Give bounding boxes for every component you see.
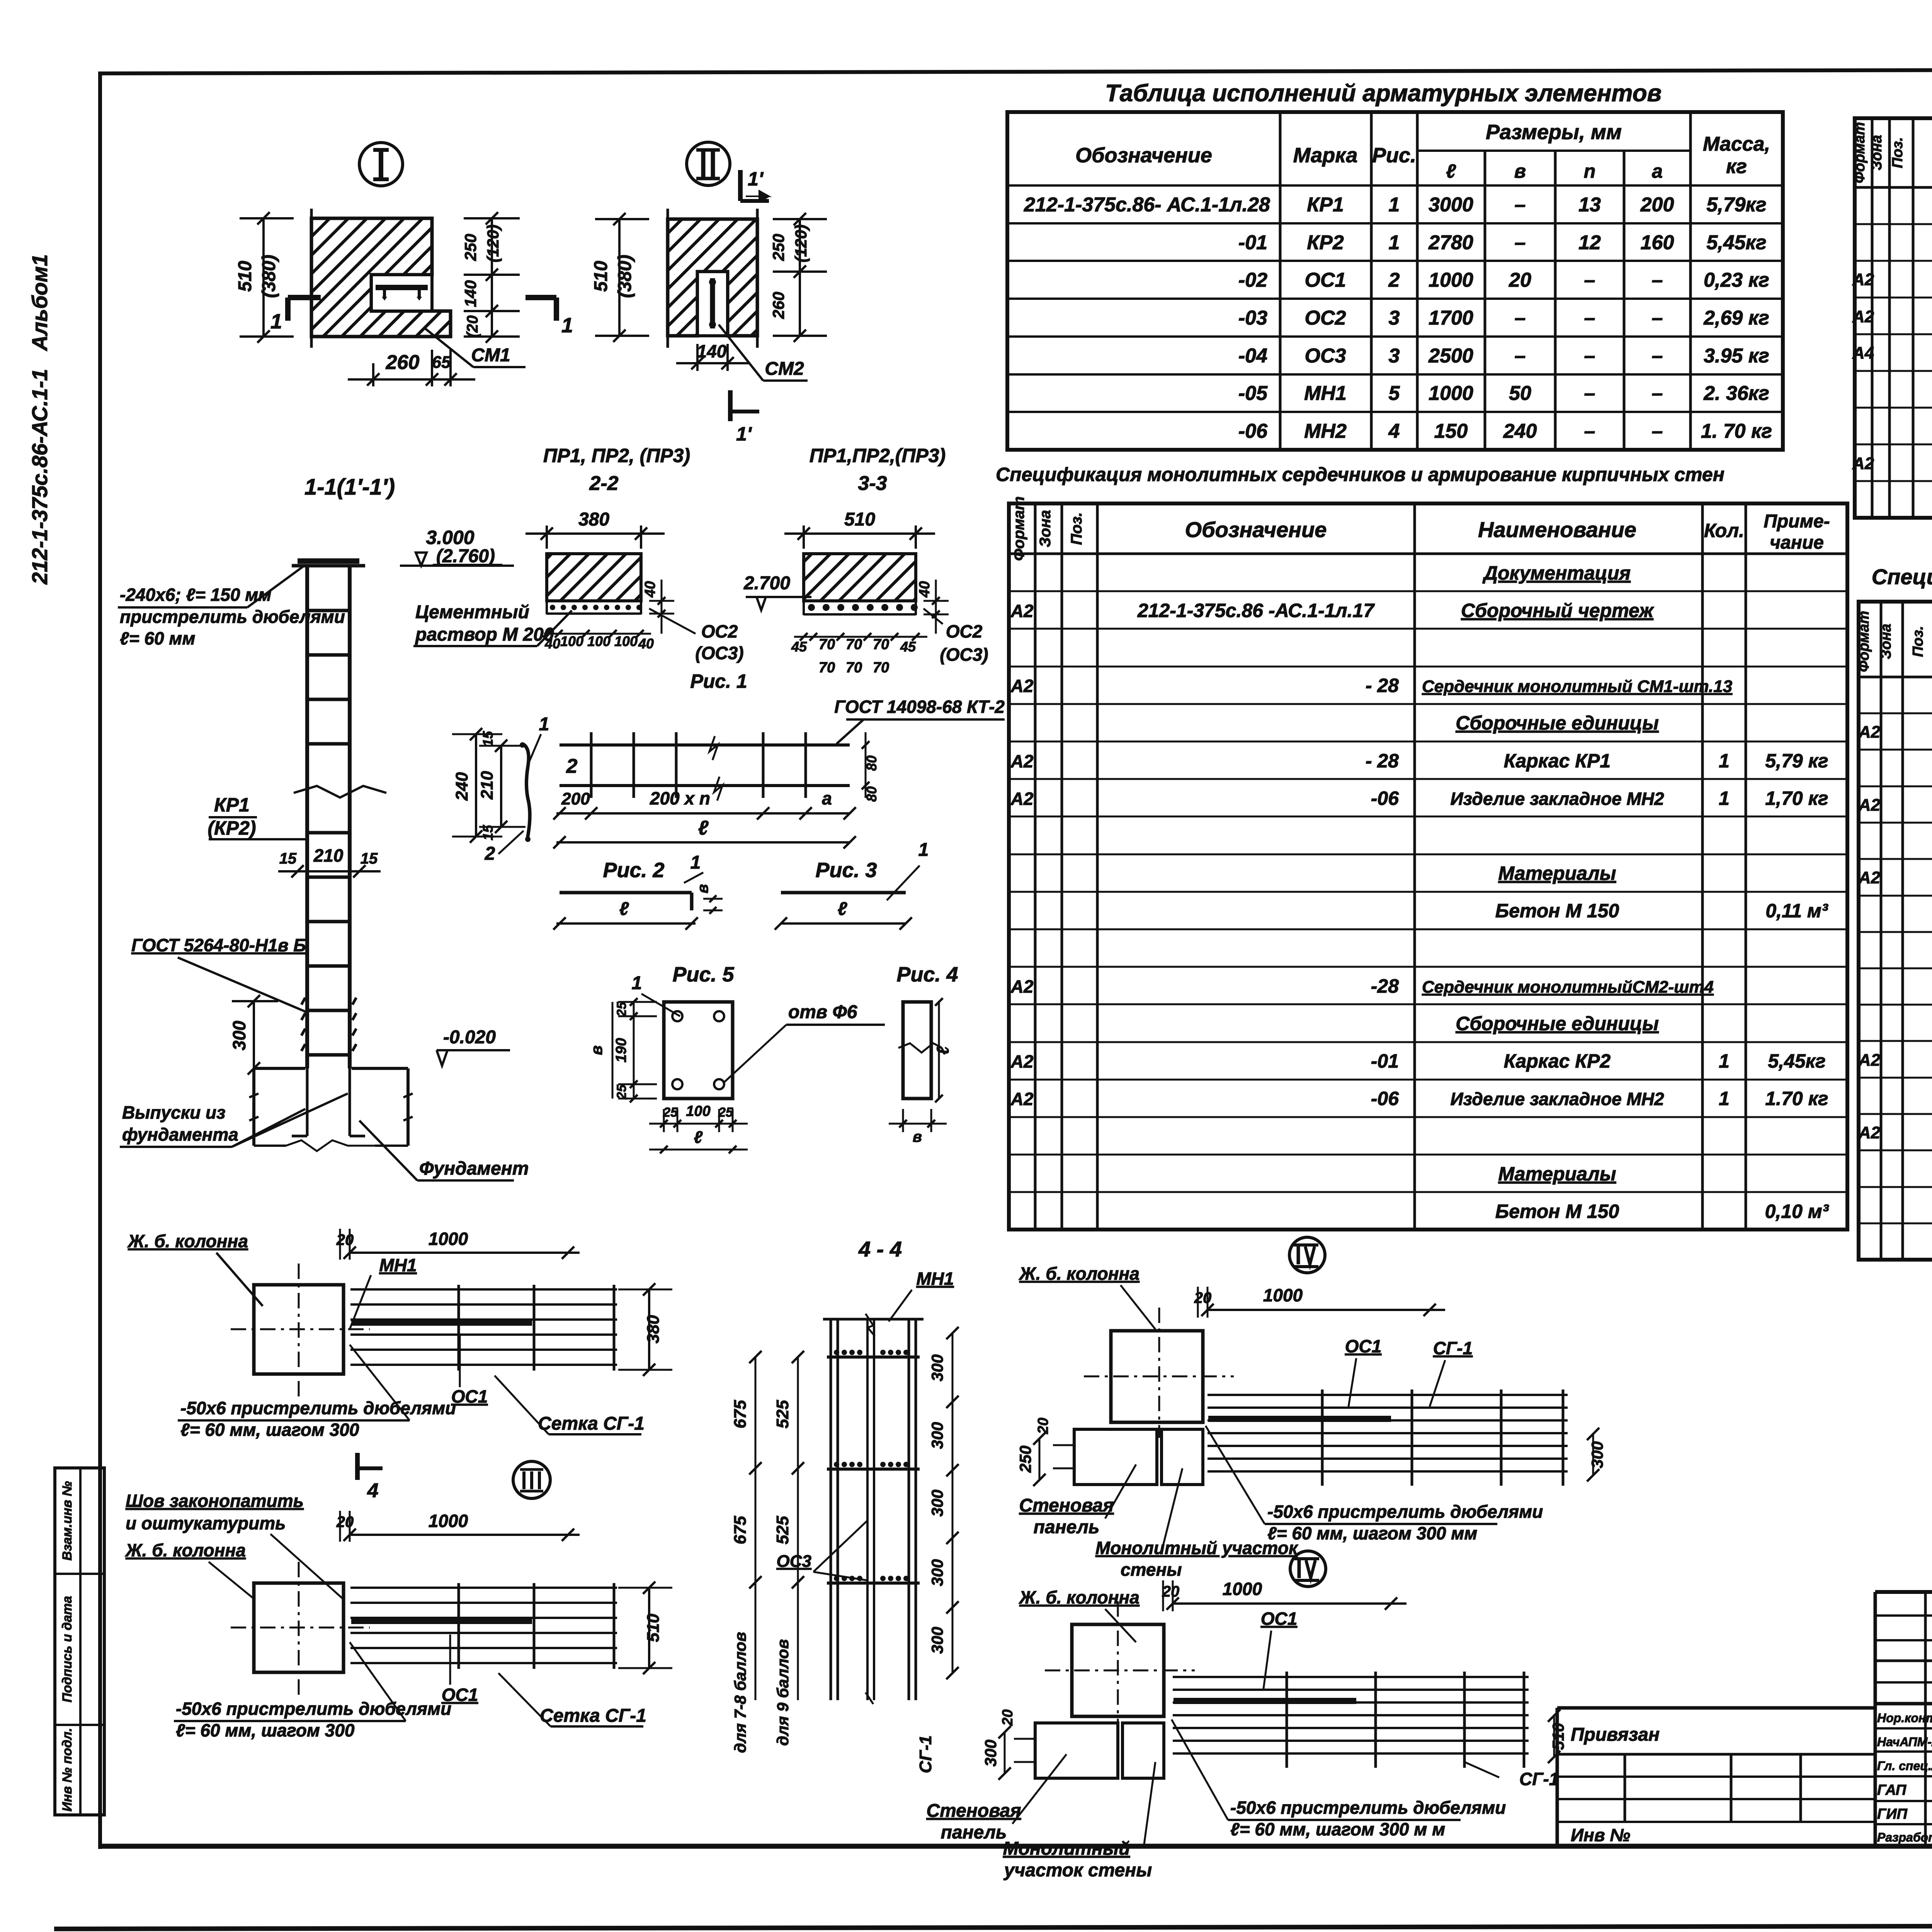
detail I right dims 250(120) 140 (20) (491, 218, 493, 337)
svg-text:А4: А4 (1852, 344, 1874, 362)
svg-text:фундамента: фундамента (122, 1124, 238, 1145)
svg-text:80: 80 (864, 786, 879, 802)
svg-text:1-1(1′-1′): 1-1(1′-1′) (304, 474, 395, 500)
svg-text:250: 250 (769, 234, 787, 261)
svg-text:65: 65 (432, 353, 451, 372)
svg-text:300: 300 (229, 1020, 249, 1050)
svg-text:НачАПМ-2: НачАПМ-2 (1877, 1735, 1932, 1749)
svg-text:Разработ.: Разработ. (1877, 1830, 1932, 1844)
label CM2 (719, 325, 763, 381)
svg-text:300: 300 (928, 1354, 946, 1381)
svg-text:СГ-1: СГ-1 (1433, 1338, 1473, 1358)
svg-text:ℓ: ℓ (619, 899, 629, 919)
detail I bottom dim 260 65 (372, 363, 374, 386)
svg-text:–: – (1652, 307, 1663, 329)
svg-text:КР1: КР1 (214, 794, 250, 816)
detail IV lower circle (1290, 1551, 1326, 1587)
svg-text:1.70 кг: 1.70 кг (1765, 1088, 1828, 1109)
svg-text:МН1: МН1 (1304, 382, 1347, 405)
svg-text:отв Ф6: отв Ф6 (788, 1002, 857, 1022)
svg-text:300: 300 (928, 1559, 946, 1586)
svg-text:200: 200 (1640, 194, 1674, 216)
svg-text:510: 510 (591, 261, 611, 292)
detail I circle (359, 143, 403, 186)
dim 300 (253, 1001, 255, 1068)
svg-text:3.000: 3.000 (426, 527, 474, 548)
svg-text:50: 50 (1509, 382, 1531, 405)
svg-text:–: – (1515, 345, 1526, 367)
svg-text:510: 510 (235, 261, 255, 292)
svg-text:100: 100 (614, 633, 638, 649)
svg-text:ОС3: ОС3 (1305, 345, 1346, 367)
svg-text:для 7-8 баллов: для 7-8 баллов (731, 1632, 749, 1753)
svg-text:5,79 кг: 5,79 кг (1765, 750, 1828, 772)
svg-text:140: 140 (461, 280, 480, 307)
svg-text:(380): (380) (615, 255, 635, 298)
svg-text:70: 70 (846, 636, 862, 653)
svg-text:-06: -06 (1371, 1088, 1399, 1109)
svg-text:Формат: Формат (1852, 122, 1868, 184)
svg-text:ℓ= 60 мм, шагом 300: ℓ= 60 мм, шагом 300 (176, 1720, 355, 1740)
svg-text:ℓ: ℓ (698, 817, 709, 839)
svg-text:525: 525 (773, 1516, 792, 1544)
svg-text:Инв № подл.: Инв № подл. (60, 1728, 75, 1812)
svg-text:15: 15 (361, 850, 378, 867)
svg-text:ОС1: ОС1 (451, 1386, 488, 1406)
svg-text:Ж. б. колонна: Ж. б. колонна (1019, 1587, 1139, 1607)
svg-text:3.95 кг: 3.95 кг (1704, 345, 1769, 367)
svg-text:25: 25 (718, 1105, 733, 1120)
svg-text:15: 15 (279, 850, 297, 867)
svg-text:2: 2 (485, 844, 495, 864)
svg-text:13: 13 (1578, 194, 1601, 216)
svg-text:-50х6 пристрелить дюбелями: -50х6 пристрелить дюбелями (1267, 1502, 1543, 1522)
svg-text:–: – (1584, 382, 1595, 405)
svg-text:Монолитный: Монолитный (1003, 1838, 1130, 1859)
svg-text:Зона: Зона (1878, 624, 1894, 659)
svg-text:А2: А2 (1858, 868, 1881, 887)
svg-text:А2: А2 (1010, 976, 1034, 997)
svg-text:Поз.: Поз. (1889, 137, 1906, 168)
svg-text:-04: -04 (1238, 345, 1267, 367)
svg-text:Цементный: Цементный (415, 602, 529, 622)
svg-text:ОС1: ОС1 (1305, 269, 1346, 291)
svg-text:70: 70 (873, 660, 889, 676)
svg-text:2,69 кг: 2,69 кг (1703, 307, 1769, 329)
svg-text:ОС1: ОС1 (1261, 1609, 1298, 1629)
svg-text:1: 1 (539, 714, 549, 735)
svg-text:2500: 2500 (1428, 345, 1473, 367)
svg-text:3: 3 (1389, 307, 1400, 329)
svg-text:675: 675 (731, 1400, 750, 1429)
svg-text:212-1-375с.86-АС.1-1 Альбом1: 212-1-375с.86-АС.1-1 Альбом1 (27, 254, 52, 585)
fig2 bottom dims 200 200xn a l (556, 812, 850, 815)
4-4 right dims 300 (952, 1333, 954, 1673)
svg-text:160: 160 (1641, 231, 1674, 254)
svg-text:и оштукатурить: и оштукатурить (126, 1513, 286, 1533)
svg-text:Кол.: Кол. (1704, 520, 1744, 541)
svg-text:Шов законопатить: Шов законопатить (126, 1491, 304, 1511)
svg-text:А2: А2 (1010, 676, 1034, 696)
svg-text:Рис. 5: Рис. 5 (672, 963, 734, 986)
svg-text:Бетон М 150: Бетон М 150 (1495, 1201, 1619, 1222)
svg-text:ГОСТ 5264-80-Н1в Б: ГОСТ 5264-80-Н1в Б (131, 935, 306, 955)
detail I hatched wall section (311, 218, 451, 337)
svg-text:ПР1,ПР2,(ПР3): ПР1,ПР2,(ПР3) (810, 445, 946, 466)
svg-text:ОС2: ОС2 (1305, 307, 1346, 329)
svg-text:(380): (380) (259, 255, 279, 298)
svg-text:кг: кг (1726, 155, 1747, 178)
3-3 dim 510 (803, 526, 805, 549)
svg-text:20: 20 (1509, 269, 1531, 291)
svg-text:210: 210 (478, 771, 497, 800)
left mini stamp strip (55, 1468, 104, 1815)
svg-text:1: 1 (561, 314, 573, 337)
svg-text:525: 525 (773, 1400, 792, 1429)
detail I wall face line (310, 209, 313, 348)
svg-text:1': 1' (736, 423, 752, 445)
svg-text:300: 300 (928, 1627, 946, 1654)
svg-text:1000: 1000 (1263, 1285, 1303, 1305)
svg-text:ОС1: ОС1 (1345, 1336, 1382, 1356)
svg-text:45: 45 (900, 639, 916, 655)
svg-text:240: 240 (452, 772, 471, 801)
svg-text:Каркас КР1: Каркас КР1 (1504, 750, 1611, 772)
title block (stamp) (1875, 1590, 1932, 1594)
svg-text:260: 260 (386, 351, 420, 374)
4-4 left dims 675 525 (755, 1357, 757, 1700)
svg-text:1000: 1000 (429, 1511, 468, 1531)
privjazan block (1557, 1706, 1875, 1710)
svg-text:20: 20 (1035, 1418, 1051, 1434)
section mark 4 upper (355, 1453, 360, 1480)
wall panels (1074, 1429, 1157, 1485)
svg-text:в: в (694, 884, 711, 893)
svg-text:Обозначение: Обозначение (1075, 144, 1212, 167)
svg-text:Сборочный чертеж: Сборочный чертеж (1461, 600, 1654, 621)
svg-text:А2: А2 (1852, 307, 1874, 326)
svg-text:для 9 баллов: для 9 баллов (774, 1639, 792, 1746)
svg-text:70: 70 (873, 636, 889, 653)
svg-text:Рис. 3: Рис. 3 (815, 859, 877, 882)
svg-text:в: в (1514, 160, 1526, 182)
svg-text:раствор М 200: раствор М 200 (415, 624, 554, 645)
svg-text:Бетон М 150: Бетон М 150 (1495, 900, 1619, 922)
svg-text:чание: чание (1770, 532, 1824, 553)
svg-text:190: 190 (613, 1038, 629, 1062)
svg-text:ℓ: ℓ (838, 899, 847, 919)
svg-text:1: 1 (1389, 231, 1400, 254)
svg-text:675: 675 (731, 1516, 750, 1544)
svg-text:510: 510 (1549, 1723, 1567, 1750)
svg-text:1: 1 (1389, 194, 1400, 216)
svg-text:1': 1' (748, 168, 764, 190)
svg-text:150: 150 (1434, 420, 1468, 442)
svg-text:–: – (1515, 307, 1526, 329)
svg-text:Изделие закладное МН2: Изделие закладное МН2 (1450, 789, 1664, 809)
dim 510 right (648, 1588, 650, 1668)
svg-text:4 - 4: 4 - 4 (858, 1237, 902, 1261)
svg-text:Марка: Марка (1293, 144, 1358, 167)
detail II bottom dim 140 (696, 344, 699, 371)
svg-text:Поз.: Поз. (1910, 626, 1926, 657)
svg-text:12: 12 (1578, 231, 1601, 254)
svg-text:20: 20 (1162, 1583, 1180, 1600)
dims 250 20 300 (1039, 1439, 1041, 1480)
svg-text:Сердечник монолитныйСМ2-шт4: Сердечник монолитныйСМ2-шт4 (1422, 978, 1714, 997)
svg-text:1: 1 (1719, 787, 1730, 809)
circle III upper (513, 1461, 550, 1498)
svg-text:100: 100 (560, 633, 583, 649)
mesh right (1207, 1394, 1568, 1396)
svg-text:Спецификация монолитных перем: Спецификация монолитных перемычек при то… (1872, 565, 1932, 589)
label CM1 (425, 328, 473, 367)
svg-text:20: 20 (336, 1514, 354, 1531)
svg-text:Сердечник монолитный СМ1-шт.13: Сердечник монолитный СМ1-шт.13 (1422, 677, 1732, 696)
svg-text:1000: 1000 (1429, 382, 1473, 405)
svg-text:240: 240 (1503, 420, 1537, 442)
detail I left dim 510 (380) (262, 218, 265, 337)
svg-text:300: 300 (928, 1490, 946, 1517)
svg-text:Материалы: Материалы (1498, 1163, 1616, 1185)
2-2 dim 380 (546, 526, 548, 549)
svg-text:в: в (587, 1045, 605, 1055)
svg-text:Спецификация монолитных сердеч: Спецификация монолитных сердечников и ар… (996, 464, 1725, 485)
svg-text:Наименование: Наименование (1478, 517, 1636, 542)
foundation (254, 1067, 305, 1070)
column cap plate (292, 564, 365, 568)
svg-text:300: 300 (1588, 1441, 1606, 1468)
svg-text:0,23 кг: 0,23 кг (1704, 269, 1769, 291)
svg-text:20: 20 (1194, 1289, 1212, 1306)
svg-text:СМ2: СМ2 (765, 359, 804, 379)
svg-text:212-1-375с.86- АС.1-1л.28: 212-1-375с.86- АС.1-1л.28 (1024, 194, 1270, 216)
svg-text:Каркас КР2: Каркас КР2 (1504, 1050, 1611, 1072)
detail II right dim 250(120) 260 (799, 219, 801, 336)
svg-text:–: – (1584, 269, 1595, 291)
svg-text:Инв №: Инв № (1571, 1825, 1630, 1845)
svg-text:Зона: Зона (1869, 135, 1885, 170)
svg-text:1: 1 (1719, 750, 1730, 772)
svg-text:панель: панель (941, 1822, 1007, 1843)
svg-text:100: 100 (587, 633, 611, 649)
svg-text:пристрелить дюбелями: пристрелить дюбелями (120, 607, 345, 627)
svg-text:510: 510 (844, 509, 875, 530)
level mark 3.000 (2.760) (400, 565, 514, 567)
svg-text:ОС2: ОС2 (946, 621, 983, 641)
2-2 dim 40 right (649, 600, 674, 602)
svg-text:А2: А2 (1858, 796, 1881, 815)
svg-text:ГОСТ 14098-68 КТ-2: ГОСТ 14098-68 КТ-2 (834, 697, 1005, 717)
svg-text:100: 100 (686, 1103, 710, 1119)
3-3 dims 45 70x5 45 (794, 636, 927, 638)
svg-text:Изделие закладное МН2: Изделие закладное МН2 (1450, 1089, 1664, 1109)
svg-text:20: 20 (336, 1231, 354, 1248)
svg-text:МН1: МН1 (916, 1269, 954, 1289)
embedded part CM2 slot (697, 272, 728, 336)
svg-text:Таблица исполнений арматурных: Таблица исполнений арматурных элементов (1105, 80, 1662, 107)
svg-text:СГ-1: СГ-1 (1519, 1769, 1559, 1789)
svg-text:Ж. б. колонна: Ж. б. колонна (125, 1540, 246, 1560)
fig2 dims 80 80 (865, 732, 867, 798)
svg-text:380: 380 (578, 509, 609, 530)
svg-text:250: 250 (461, 234, 480, 261)
svg-text:–: – (1515, 231, 1526, 254)
svg-text:2: 2 (1388, 269, 1400, 291)
svg-text:–: – (1515, 194, 1526, 216)
svg-text:КР1: КР1 (1307, 194, 1344, 216)
2-2 lintel section (547, 554, 641, 601)
paper edge bottom (54, 1925, 1932, 1929)
svg-text:Подпись и дата: Подпись и дата (60, 1596, 75, 1702)
svg-text:5,45кг: 5,45кг (1706, 231, 1766, 254)
svg-text:участок стены: участок стены (1003, 1860, 1152, 1881)
svg-text:210: 210 (313, 845, 344, 866)
svg-text:А2: А2 (1010, 1089, 1034, 1109)
svg-text:2: 2 (566, 755, 578, 777)
detail II hatched section (668, 219, 757, 336)
svg-text:70: 70 (819, 660, 835, 676)
svg-text:а: а (1652, 160, 1663, 182)
svg-text:212-1-375с.86 -АС.1-1л.17: 212-1-375с.86 -АС.1-1л.17 (1137, 600, 1375, 621)
svg-text:Зона: Зона (1037, 510, 1054, 548)
svg-text:70: 70 (846, 660, 862, 676)
svg-text:ℓ: ℓ (934, 1046, 952, 1054)
svg-text:(ОС3): (ОС3) (695, 643, 743, 663)
svg-text:80: 80 (864, 755, 879, 771)
svg-text:380: 380 (644, 1315, 663, 1344)
svg-text:-240х6; ℓ= 150 мм: -240х6; ℓ= 150 мм (120, 585, 271, 605)
svg-text:Рис. 4: Рис. 4 (896, 963, 958, 986)
svg-text:Рис.: Рис. (1372, 144, 1416, 167)
svg-text:4: 4 (367, 1480, 379, 1502)
svg-text:200: 200 (561, 789, 590, 808)
svg-text:ГАП: ГАП (1877, 1782, 1906, 1798)
svg-text:стены: стены (1121, 1560, 1182, 1580)
svg-text:40: 40 (642, 581, 658, 598)
svg-text:ℓ: ℓ (694, 1128, 703, 1147)
svg-text:300: 300 (981, 1740, 1000, 1767)
svg-text:1: 1 (632, 973, 642, 993)
svg-text:250: 250 (1016, 1446, 1034, 1473)
section marks 1prime (738, 170, 743, 201)
svg-text:1000: 1000 (1223, 1579, 1262, 1599)
svg-text:ГИП: ГИП (1877, 1806, 1908, 1822)
svg-text:Формат: Формат (1856, 611, 1872, 672)
svg-text:-50х6 пристрелить дюбелями: -50х6 пристрелить дюбелями (1230, 1798, 1506, 1818)
svg-text:2780: 2780 (1428, 231, 1473, 254)
svg-text:А2: А2 (1010, 1051, 1034, 1071)
svg-text:1000: 1000 (1429, 269, 1473, 291)
svg-text:-03: -03 (1238, 307, 1267, 329)
svg-text:5,79кг: 5,79кг (1706, 194, 1766, 216)
svg-text:25: 25 (663, 1105, 678, 1120)
svg-text:25: 25 (614, 1084, 629, 1100)
svg-text:Масса,: Масса, (1703, 133, 1770, 155)
svg-text:панель: панель (1034, 1517, 1100, 1537)
svg-text:Стеновая: Стеновая (926, 1801, 1021, 1821)
svg-text:300: 300 (928, 1422, 946, 1449)
svg-text:3: 3 (1389, 345, 1400, 367)
svg-text:45: 45 (791, 639, 807, 655)
weld marks on column (301, 998, 305, 1005)
svg-text:СМ1: СМ1 (471, 345, 510, 366)
svg-text:20: 20 (1000, 1709, 1016, 1726)
svg-text:Привязан: Привязан (1571, 1725, 1660, 1745)
detail II circle (687, 142, 730, 185)
svg-text:3000: 3000 (1429, 194, 1473, 216)
svg-text:-28: -28 (1371, 975, 1399, 997)
svg-text:А2: А2 (1852, 454, 1874, 473)
svg-text:А2: А2 (1858, 1051, 1881, 1070)
svg-text:260: 260 (769, 292, 787, 319)
svg-text:3-3: 3-3 (858, 472, 887, 495)
svg-text:А2: А2 (1858, 1123, 1881, 1142)
svg-text:–: – (1584, 307, 1595, 329)
svg-text:А2: А2 (1010, 601, 1034, 621)
svg-text:СГ-1: СГ-1 (916, 1735, 935, 1773)
svg-text:(120): (120) (792, 224, 810, 262)
svg-text:1000: 1000 (429, 1229, 468, 1249)
svg-text:-02: -02 (1238, 269, 1267, 291)
svg-text:n: n (1584, 160, 1596, 182)
section mark 1 right (526, 295, 556, 300)
svg-text:в: в (913, 1128, 922, 1145)
svg-text:Сетка СГ-1: Сетка СГ-1 (540, 1706, 646, 1726)
svg-text:–: – (1652, 345, 1663, 367)
svg-text:1,70 кг: 1,70 кг (1765, 787, 1828, 809)
svg-text:ℓ= 60 мм, шагом 300: ℓ= 60 мм, шагом 300 (180, 1420, 359, 1440)
svg-text:Ж. б. колонна: Ж. б. колонна (1019, 1264, 1139, 1284)
svg-text:40: 40 (917, 581, 933, 598)
svg-text:(120): (120) (484, 224, 502, 262)
embedded part CM1 in detail I (371, 275, 432, 311)
svg-text:70: 70 (819, 636, 835, 653)
svg-text:1: 1 (1719, 1050, 1730, 1072)
svg-text:Сборочные единицы: Сборочные единицы (1456, 1013, 1659, 1034)
svg-text:(КР2): (КР2) (207, 817, 256, 839)
svg-text:-50х6 пристрелить дюбелями: -50х6 пристрелить дюбелями (180, 1398, 456, 1418)
svg-text:(2.760): (2.760) (436, 546, 495, 566)
column outlets in foundation (306, 1068, 309, 1136)
svg-text:15: 15 (480, 825, 496, 840)
column break symbol (294, 786, 386, 798)
svg-text:А2: А2 (1010, 751, 1034, 771)
svg-text:2.700: 2.700 (743, 573, 790, 594)
svg-text:40: 40 (638, 636, 654, 651)
svg-text:Выпуски из: Выпуски из (122, 1102, 226, 1122)
svg-text:А2: А2 (1852, 270, 1874, 289)
detail IV upper circle (1289, 1237, 1325, 1273)
svg-text:5,45кг: 5,45кг (1768, 1050, 1825, 1072)
svg-text:-0.020: -0.020 (443, 1027, 496, 1048)
svg-text:- 28: - 28 (1366, 675, 1399, 696)
bent rod detail with dims 240 210 15 (475, 734, 477, 837)
svg-text:–: – (1652, 420, 1663, 442)
svg-text:0,10 м³: 0,10 м³ (1765, 1201, 1829, 1222)
svg-text:А2: А2 (1010, 789, 1034, 809)
svg-text:0,11 м³: 0,11 м³ (1765, 900, 1828, 922)
svg-text:ℓ= 60 мм, шагом 300 м м: ℓ= 60 мм, шагом 300 м м (1230, 1819, 1445, 1839)
svg-text:-01: -01 (1371, 1050, 1399, 1072)
svg-text:Гл. спец.: Гл. спец. (1877, 1759, 1932, 1773)
dim 380 right (648, 1289, 650, 1370)
svg-text:1: 1 (918, 840, 929, 860)
svg-text:Стеновая: Стеновая (1019, 1495, 1114, 1516)
svg-text:1: 1 (270, 310, 282, 333)
column ladder KP1 (305, 566, 309, 1068)
svg-text:Материалы: Материалы (1498, 862, 1616, 884)
